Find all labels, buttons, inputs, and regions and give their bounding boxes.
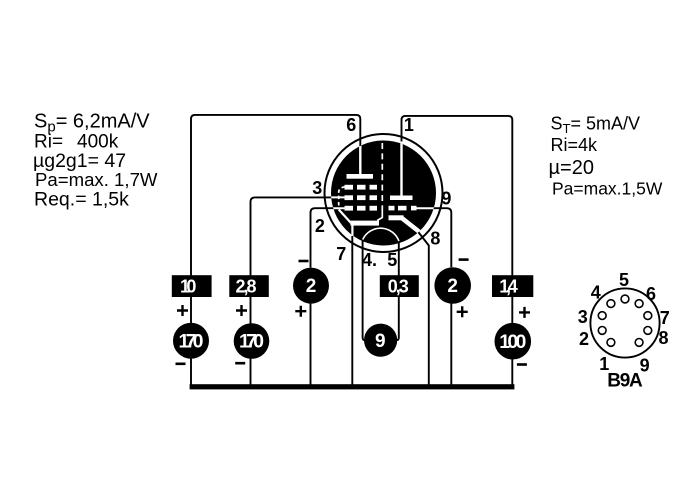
- triode grid dashes: [389, 206, 395, 211]
- minus sign (grid bias pentode): [299, 260, 309, 263]
- svg-text:3: 3: [312, 178, 322, 198]
- svg-text:1,4: 1,4: [499, 276, 518, 296]
- shield hook: [377, 211, 382, 221]
- tube envelope black disc: [331, 141, 436, 246]
- meter circle 2 V grid bias triode: [434, 267, 471, 304]
- svg-text:1: 1: [404, 115, 414, 135]
- base pin 8: [644, 327, 652, 335]
- meter box 0,3 A heater current: [380, 275, 419, 297]
- base pin 4: [607, 300, 615, 308]
- wire pin3 screen grid: [251, 197, 333, 276]
- pentode grid g3 dashes: [345, 185, 354, 190]
- heater dome arc: [363, 228, 399, 241]
- triode cathode diagonal to pin8: [402, 218, 420, 232]
- triode cathode: [389, 215, 404, 220]
- wire meter 2V to bus: [310, 303, 312, 386]
- g1 internal lead to pin2: [331, 207, 345, 209]
- wire pin7 cathode to bus: [351, 236, 353, 386]
- wire pin2 control grid: [311, 208, 334, 267]
- base pin 3: [598, 312, 606, 320]
- pentode cathode: [351, 221, 380, 226]
- wire pin9 triode grid: [434, 208, 452, 267]
- pin 6 internal lead: [359, 140, 361, 176]
- svg-text:Pa=max.1,5W: Pa=max.1,5W: [552, 179, 663, 199]
- plus sign: [236, 305, 247, 316]
- minus sign: [517, 363, 527, 366]
- triode anode: [390, 196, 413, 201]
- meter circle 9 V heater: [364, 324, 397, 357]
- ground bus bar: [190, 384, 515, 389]
- pentode anode: [347, 174, 374, 179]
- wire meter to bus: [250, 358, 252, 386]
- base pin 2: [598, 327, 606, 335]
- tube envelope outer circle: [325, 134, 443, 252]
- wire box1,4 to meter 100: [511, 297, 513, 323]
- svg-text:9: 9: [375, 331, 386, 352]
- svg-text:4.: 4.: [362, 250, 377, 270]
- minus sign (grid bias triode): [459, 258, 469, 261]
- meter circle 170 V: [234, 323, 270, 359]
- svg-text:7: 7: [660, 308, 670, 328]
- meter circle 2 V grid bias pentode: [293, 268, 329, 304]
- plus sign: [457, 306, 468, 317]
- meter circle 100 V: [495, 323, 532, 360]
- svg-text:ST= 5mA/V: ST= 5mA/V: [551, 114, 641, 137]
- wire pin5 heater lead: [395, 242, 399, 341]
- pin 1 internal lead: [400, 139, 402, 196]
- meter circle 170 V: [173, 323, 209, 359]
- svg-text:Pa=max. 1,7W: Pa=max. 1,7W: [35, 169, 158, 190]
- wire meter 2V to bus: [450, 304, 452, 387]
- svg-text:100: 100: [499, 331, 526, 353]
- svg-text:2,8: 2,8: [236, 276, 257, 296]
- svg-text:170: 170: [239, 331, 264, 353]
- svg-text:2: 2: [306, 276, 317, 297]
- base pin 9: [635, 339, 643, 347]
- svg-text:B9A: B9A: [607, 371, 643, 392]
- wire meter to bus: [511, 359, 513, 387]
- plus sign: [177, 305, 188, 316]
- minus sign: [235, 362, 245, 365]
- wire pin8 triode cathode to bus: [418, 231, 429, 386]
- svg-text:6: 6: [346, 115, 356, 135]
- base pin 5: [621, 295, 629, 303]
- svg-text:2: 2: [315, 216, 325, 236]
- svg-text:2: 2: [579, 329, 589, 349]
- pentode cathode lead to pin7: [351, 225, 353, 241]
- meter box 10 mA (anode current pentode): [172, 275, 212, 297]
- svg-text:0,3: 0,3: [388, 276, 409, 296]
- wire box2,8 to meter 170: [250, 297, 252, 324]
- plus sign: [295, 306, 306, 317]
- svg-text:4: 4: [591, 283, 601, 303]
- g3 to cathode strap (dashed): [339, 187, 345, 208]
- plus sign: [519, 307, 530, 318]
- svg-text:5: 5: [387, 250, 397, 270]
- B9A base outline: [590, 288, 659, 357]
- svg-text:Ri=4k: Ri=4k: [551, 135, 599, 155]
- g2 internal lead to pin3: [329, 196, 345, 198]
- wire pin1 to anode supply (right top): [402, 116, 513, 277]
- wire pin6 to anode supply (left top): [191, 115, 360, 277]
- base pin 1: [607, 339, 615, 347]
- svg-text:8: 8: [658, 328, 668, 348]
- svg-text:6: 6: [646, 284, 656, 304]
- wire box10 to meter 170: [190, 297, 192, 323]
- triode grid lead to pin9: [417, 207, 436, 209]
- meter box 2,8 mA (screen current): [229, 275, 268, 297]
- svg-text:5: 5: [619, 270, 629, 290]
- svg-text:7: 7: [336, 244, 346, 264]
- pentode grid g1 dashes: [345, 206, 354, 211]
- svg-text:9: 9: [441, 189, 451, 209]
- base pin 6: [635, 300, 643, 308]
- svg-text:10: 10: [180, 276, 197, 296]
- wire pin4 heater lead: [363, 241, 367, 341]
- wire meter to bus: [190, 359, 192, 387]
- minus sign: [176, 363, 186, 366]
- base pin 7: [644, 312, 652, 320]
- svg-text:2: 2: [447, 276, 458, 297]
- svg-text:170: 170: [179, 331, 204, 353]
- svg-text:8: 8: [430, 229, 440, 249]
- internal shield (dashed divider): [381, 143, 383, 211]
- svg-text:Req.= 1,5k: Req.= 1,5k: [34, 188, 129, 210]
- svg-text:3: 3: [578, 307, 588, 327]
- pentode grid g2 dashes: [345, 195, 354, 200]
- svg-text:µ=20: µ=20: [549, 157, 594, 179]
- g3 strap diagonal to cathode: [339, 210, 351, 224]
- meter box 1,4 mA (triode anode current): [492, 275, 533, 297]
